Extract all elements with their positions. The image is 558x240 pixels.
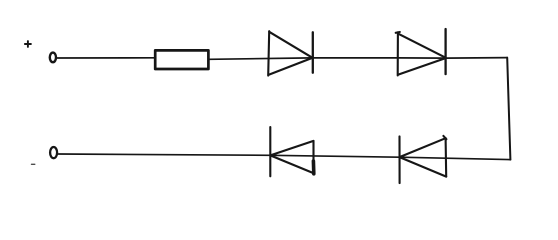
plus label — [25, 41, 31, 47]
diode D3 — [270, 127, 314, 176]
wire — [57, 57, 154, 59]
terminal - — [50, 147, 57, 158]
wire — [507, 58, 510, 160]
resistor R1 — [155, 50, 208, 69]
diode D1 — [268, 31, 313, 75]
terminal + — [50, 53, 56, 63]
wire — [210, 58, 508, 60]
diode D4 — [400, 136, 447, 183]
minus label — [32, 163, 35, 165]
wire — [58, 154, 510, 160]
diode D2 — [396, 29, 446, 76]
